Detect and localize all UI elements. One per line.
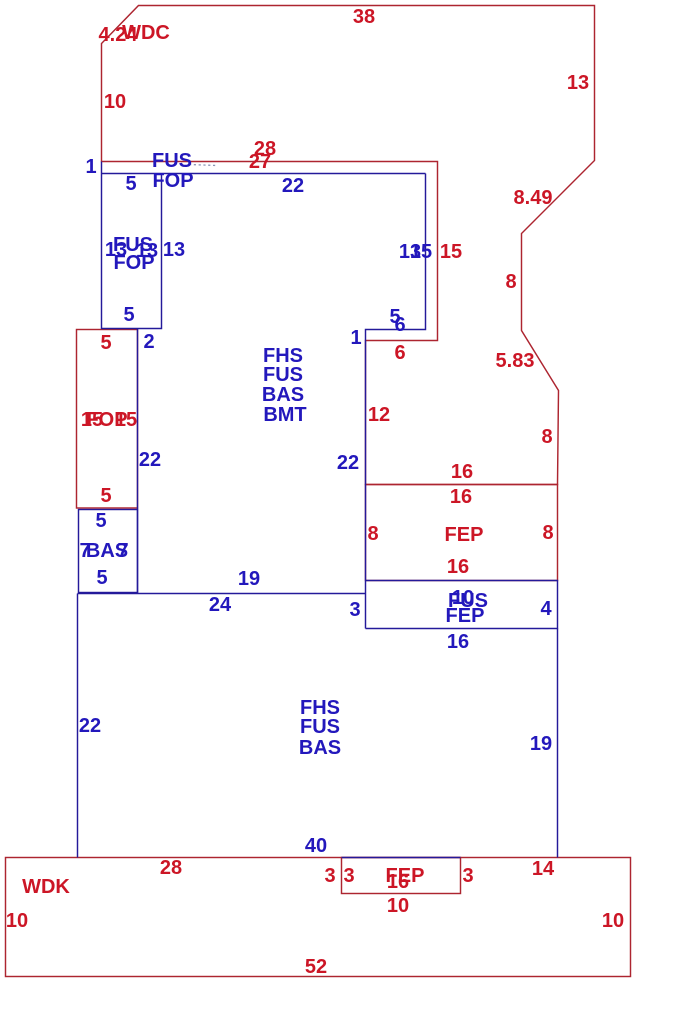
svg-text:3: 3	[343, 865, 354, 887]
WDC outline	[102, 6, 595, 485]
svg-text:52: 52	[305, 956, 327, 978]
svg-text:BMT: BMT	[263, 404, 306, 426]
FOP left rect	[77, 330, 138, 509]
svg-text:5: 5	[125, 173, 136, 195]
FEP upper rect	[366, 485, 558, 581]
svg-text:16: 16	[447, 631, 469, 653]
svg-text:FOP: FOP	[152, 170, 193, 192]
svg-text:19: 19	[530, 733, 552, 755]
svg-text:FEP: FEP	[445, 524, 484, 546]
svg-text:2: 2	[143, 331, 154, 353]
svg-text:28: 28	[160, 857, 182, 879]
svg-text:8.49: 8.49	[514, 187, 553, 209]
blue right arm	[366, 174, 426, 629]
blue top edge	[102, 173, 426, 175]
svg-text:13: 13	[105, 239, 127, 261]
svg-text:40: 40	[305, 835, 327, 857]
blue FOP column	[102, 162, 162, 329]
svg-text:6: 6	[394, 342, 405, 364]
svg-text:16: 16	[450, 486, 472, 508]
svg-text:FUS: FUS	[300, 716, 340, 738]
svg-text:27: 27	[249, 151, 271, 173]
svg-text:15: 15	[410, 241, 432, 263]
svg-text:12: 12	[368, 404, 390, 426]
svg-text:8: 8	[367, 523, 378, 545]
svg-text:22: 22	[282, 175, 304, 197]
svg-text:10: 10	[6, 910, 28, 932]
svg-text:19: 19	[238, 568, 260, 590]
svg-text:WDC: WDC	[122, 22, 170, 44]
svg-text:8: 8	[505, 271, 516, 293]
svg-text:15: 15	[440, 241, 462, 263]
svg-text:38: 38	[353, 6, 375, 28]
svg-text:FUS: FUS	[152, 150, 192, 172]
svg-text:4: 4	[540, 598, 552, 620]
svg-text:3: 3	[349, 599, 360, 621]
svg-text:8: 8	[542, 522, 553, 544]
svg-text:22: 22	[79, 715, 101, 737]
small FEP rect	[342, 858, 461, 894]
svg-text:WDK: WDK	[22, 876, 70, 898]
svg-text:24: 24	[209, 594, 232, 616]
svg-text:15: 15	[115, 409, 137, 431]
svg-text:6: 6	[394, 314, 405, 336]
svg-text:10: 10	[602, 910, 624, 932]
svg-text:3: 3	[462, 865, 473, 887]
svg-text:5.83: 5.83	[496, 350, 535, 372]
svg-text:BAS: BAS	[262, 384, 304, 406]
blue vertical x137	[137, 329, 139, 594]
svg-text:7: 7	[117, 540, 128, 562]
blue west side	[77, 594, 79, 858]
svg-text:BAS: BAS	[299, 737, 341, 759]
svg-text:10: 10	[104, 91, 126, 113]
svg-text:22: 22	[139, 449, 161, 471]
svg-text:16: 16	[447, 556, 469, 578]
blue mid horizontal	[78, 593, 366, 595]
svg-text:3: 3	[324, 865, 335, 887]
svg-text:13: 13	[567, 72, 589, 94]
svg-text:1: 1	[85, 156, 96, 178]
blue east side	[557, 629, 559, 858]
blue FUS FEP rect	[366, 581, 558, 629]
svg-text:22: 22	[337, 452, 359, 474]
svg-text:14: 14	[532, 858, 555, 880]
blue bottom segment over red	[342, 857, 461, 859]
dotted hidden line	[189, 165, 217, 166]
svg-text:5: 5	[123, 304, 134, 326]
BAS rect	[79, 510, 138, 593]
svg-text:13: 13	[163, 239, 185, 261]
WDK rect	[6, 858, 631, 977]
svg-text:5: 5	[100, 332, 111, 354]
svg-text:FEP: FEP	[446, 605, 485, 627]
svg-text:1: 1	[350, 327, 361, 349]
svg-text:5: 5	[100, 485, 111, 507]
svg-text:10: 10	[387, 895, 409, 917]
svg-text:16: 16	[387, 871, 409, 893]
svg-text:FUS: FUS	[263, 364, 303, 386]
svg-text:5: 5	[96, 567, 107, 589]
svg-text:16: 16	[451, 461, 473, 483]
svg-text:8: 8	[541, 426, 552, 448]
svg-text:5: 5	[95, 510, 106, 532]
svg-text:13: 13	[136, 240, 158, 262]
